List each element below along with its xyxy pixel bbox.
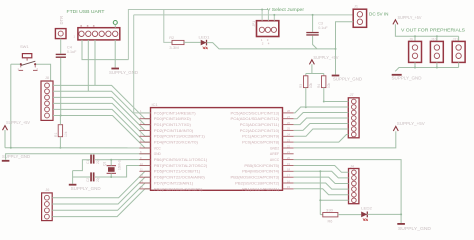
svg-text:PD4(PCINT20/XCK/T0): PD4(PCINT20/XCK/T0): [154, 141, 198, 145]
svg-text:JP1: JP1: [252, 21, 256, 27]
ground SUPPLY_GND at FTDI: [109, 68, 138, 75]
junction crystal bottom: [110, 176, 112, 178]
wire R1 bottom to VCC rail: [59, 137, 61, 148]
pin 13 stub (left): [139, 182, 150, 184]
pin 20 stub (right): [283, 159, 294, 161]
svg-text:0.1uF: 0.1uF: [318, 26, 328, 30]
wire J8 pin2 to IC PD1: [53, 91, 150, 124]
pin numbers under JP1: [261, 38, 270, 46]
svg-text:R2: R2: [169, 36, 174, 40]
svg-text:FTDI USB UART: FTDI USB UART: [67, 9, 105, 14]
svg-text:V OUT FOR PREPHERIALS: V OUT FOR PREPHERIALS: [401, 28, 465, 33]
wire J11 bottom to gnd rail: [458, 62, 460, 67]
wire IC XTAL2 to C2: [95, 166, 150, 178]
junction R4/SCL: [323, 101, 325, 103]
junction crystal top: [110, 159, 112, 161]
svg-text:SW1: SW1: [20, 44, 29, 49]
ground SUPPLY_GND peripherals: [392, 74, 422, 81]
pin 16 stub (right): [283, 182, 294, 184]
wire J4 pin6 to R6 branch: [320, 199, 348, 201]
pin 19 stub (right): [283, 165, 294, 167]
junction R3/SDA: [305, 106, 307, 108]
junction rail/J9: [414, 35, 416, 37]
svg-text:x: x: [80, 24, 82, 28]
connector J9: [409, 41, 422, 62]
wire IC PB4 to J4 pin2: [294, 171, 349, 178]
wire R3 bottom to SDA net: [305, 88, 307, 108]
wire C2 to ground: [73, 176, 91, 178]
svg-text:SUPPLY_+5V: SUPPLY_+5V: [313, 55, 338, 60]
svg-text:PC1(ADC1/PCINT9): PC1(ADC1/PCINT9): [242, 135, 279, 139]
wire SW1 rail down left side: [10, 64, 12, 148]
pin 11 stub (left): [139, 170, 150, 172]
supply SUPPLY_+5V left: [3, 120, 31, 130]
svg-text:PC5(ADC5/SCL/PCINT13): PC5(ADC5/SCL/PCINT13): [231, 111, 280, 115]
pin 9 stub (left): [139, 159, 150, 161]
svg-text:R3: R3: [299, 84, 303, 88]
junction R1/VCC rail: [59, 147, 61, 149]
svg-text:J4: J4: [350, 164, 354, 168]
svg-text:J6: J6: [45, 188, 49, 192]
svg-text:VCC: VCC: [154, 146, 161, 150]
wire peripheral gnd rail: [395, 68, 458, 72]
junction J4 pin6 branch: [319, 199, 321, 201]
wire +5V arrow to VCC rail: [4, 130, 6, 148]
svg-text:10k: 10k: [327, 82, 331, 88]
connector J6 4-pin header: [42, 193, 53, 221]
wire J9 bottom to gnd rail: [414, 62, 416, 67]
pin 28 stub (right): [283, 112, 294, 114]
svg-text:SUPPLY_+5V: SUPPLY_+5V: [397, 121, 425, 126]
wire IC AVCC to bottom right ground: [294, 160, 402, 223]
svg-text:R6: R6: [328, 219, 333, 223]
svg-text:x: x: [87, 24, 89, 28]
resistor R4: [322, 76, 326, 88]
svg-text:PB7(PCINT7/XTAL2/TOSC2): PB7(PCINT7/XTAL2/TOSC2): [154, 164, 207, 168]
wire C3 bottom to gnd rail: [313, 36, 317, 49]
svg-text:PB6(PCINT6/XTAL1/TOSC1): PB6(PCINT6/XTAL1/TOSC1): [154, 158, 207, 162]
wire J8 pin6 to IC VCC: [53, 116, 150, 148]
wire top rail tee down to R2: [164, 10, 172, 43]
junction gnd rail/J9: [414, 67, 416, 69]
wire J8 pin1 to IC PD0: [53, 85, 150, 118]
svg-text:J7: J7: [350, 93, 354, 97]
svg-text:PC4(ADC4/SDA/PCINT12): PC4(ADC4/SDA/PCINT12): [231, 117, 280, 121]
svg-text:SUPPLY_+5V: SUPPLY_+5V: [398, 15, 422, 20]
wire IC PB1 to J4 pin5: [294, 189, 349, 195]
connector J4 6-pin header: [349, 169, 359, 204]
pin 6 stub (left): [139, 141, 150, 143]
wire J10 bottom to gnd rail: [436, 62, 438, 67]
svg-text:C1: C1: [86, 160, 90, 164]
wire JP1 pin1 riser: [261, 10, 263, 21]
connector J1 DC 5V IN: [353, 9, 366, 27]
junction JP1 pin3 / DC5V rail: [273, 14, 275, 16]
wire IC PC4 to J7 pin3: [294, 113, 349, 119]
wire J8 pin5 to IC PD4: [53, 109, 150, 142]
wire FTDI pin2 RXD down to J8 bus: [87, 40, 89, 91]
wire DTR pad to C4: [60, 39, 62, 54]
wire DC5V rail tee to C3: [312, 15, 314, 32]
wire R2 to LED1: [184, 41, 201, 43]
pin 21 stub (right): [283, 153, 294, 155]
pin 5 stub (left): [139, 135, 150, 137]
svg-text:PD7(PCINT23/AIN1): PD7(PCINT23/AIN1): [154, 181, 193, 185]
junction rail/J10: [436, 35, 438, 37]
svg-text:22p: 22p: [96, 158, 100, 164]
supply SUPPLY_+5V top right: [393, 15, 422, 24]
svg-text:0.1uF: 0.1uF: [67, 49, 77, 54]
wire C1 to ground corner: [73, 160, 91, 171]
wire IC PC0 to J7 pin7: [294, 135, 349, 143]
wire rail to J11: [458, 36, 460, 41]
capacitor C1: [90, 155, 94, 164]
wire +5V arrow to pullups: [311, 64, 313, 73]
svg-text:J8: J8: [45, 76, 49, 80]
svg-text:PB1(OC1A/PCINT1): PB1(OC1A/PCINT1): [242, 187, 279, 191]
capacitor C2: [90, 172, 94, 181]
svg-text:PC2(ADC2/PCINT10): PC2(ADC2/PCINT10): [240, 129, 279, 133]
svg-text:LED2: LED2: [361, 206, 372, 210]
svg-text:DTR: DTR: [59, 16, 64, 25]
pin 3 stub (left): [139, 124, 150, 126]
svg-text:PB2(SS/OC1B/PCINT2): PB2(SS/OC1B/PCINT2): [235, 181, 279, 185]
svg-text:PB3(MOSI/OC2A/PCINT3): PB3(MOSI/OC2A/PCINT3): [231, 176, 280, 180]
supply SUPPLY_+5V right: [393, 121, 425, 131]
wire VCC rail to IC pin 7: [5, 147, 150, 149]
pin 23 stub (right): [283, 141, 294, 143]
wire J6 pin4 to IC PB0: [52, 189, 150, 217]
svg-text:10k: 10k: [309, 82, 313, 88]
svg-text:SUPPLY_GND: SUPPLY_GND: [392, 75, 422, 80]
resistor R1: [58, 125, 62, 137]
svg-text:PD0(PCINT16/RXD): PD0(PCINT16/RXD): [154, 117, 191, 121]
svg-text:SUPPLY_GND: SUPPLY_GND: [2, 154, 30, 159]
wire JP1 pin2 riser: [267, 10, 269, 21]
svg-text:SUPPLY_GND: SUPPLY_GND: [398, 226, 431, 231]
connector J10: [430, 41, 443, 62]
svg-text:C2: C2: [86, 178, 90, 182]
pin 14 stub (left): [139, 188, 150, 190]
wire IC PB2 to J4 pin4: [294, 183, 349, 189]
ground SUPPLY_GND at crystal: [69, 184, 101, 191]
svg-text:Q1: Q1: [103, 162, 107, 166]
wire crystal top: [110, 160, 112, 166]
junction gnd rail/J10: [436, 67, 438, 69]
pin 10 stub (left): [139, 165, 150, 167]
svg-text:V Select Jumper: V Select Jumper: [267, 7, 304, 12]
wire IC PC5 to J7 pin2: [294, 107, 349, 113]
svg-text:PD3(PCINT19/OC2B/INT1): PD3(PCINT19/OC2B/INT1): [154, 135, 205, 139]
junction gnd rail / J1 drop: [335, 48, 337, 50]
svg-text:330: 330: [326, 208, 333, 212]
pin 27 stub (right): [283, 118, 294, 120]
wire FTDI pin1 to GND-CTS rail: [82, 40, 128, 60]
wire J6 pin3 to IC PD7: [52, 183, 150, 210]
node VCC open junction above pin 6: [113, 21, 117, 25]
wire JP1 pin3 riser: [273, 15, 275, 21]
resistor R6: [320, 213, 338, 217]
resistor R2: [172, 40, 184, 44]
svg-text:J1: J1: [354, 5, 358, 9]
wire PB4 branch down to R6: [319, 171, 321, 214]
junction SW1 rail / VCC rail: [10, 147, 12, 149]
svg-text:DC 5V IN: DC 5V IN: [369, 12, 389, 17]
ground SUPPLY_GND lower left: [2, 154, 30, 162]
pin 2 stub (left): [139, 118, 150, 120]
svg-text:PC3(ADC3/PCINT11): PC3(ADC3/PCINT11): [240, 123, 279, 127]
svg-text:IC1: IC1: [152, 102, 159, 107]
svg-text:PD1(PCINT17/TXD): PD1(PCINT17/TXD): [154, 123, 191, 127]
wire R6 to LED2: [338, 214, 361, 216]
wire IC XTAL1 to C1: [95, 159, 150, 161]
pin 17 stub (right): [283, 176, 294, 178]
wire LED1 to mid rail: [207, 43, 336, 49]
wire VCC circle to FTDI pin 6: [114, 25, 116, 28]
capacitor C3: [306, 32, 318, 36]
resistor R3: [304, 76, 308, 88]
svg-text:PB0(PCINT0/CLKO/ICP1): PB0(PCINT0/CLKO/ICP1): [154, 187, 203, 191]
pin 4 stub (left): [139, 129, 150, 131]
svg-text:PD2(PCINT18/INT0): PD2(PCINT18/INT0): [154, 129, 193, 133]
svg-text:GND: GND: [154, 152, 161, 156]
wire FTDI pin6 to ground: [114, 40, 116, 68]
pin 26 stub (right): [283, 124, 294, 126]
wire IC PC3 to J7 pin4: [294, 118, 349, 125]
junction C4/R1/J8 net: [60, 115, 62, 117]
wire left rail to SW1: [11, 63, 20, 65]
svg-text:R4: R4: [317, 84, 321, 88]
LED LED1: [201, 40, 208, 49]
junction PB4 branch: [319, 170, 321, 172]
wire rail to J9: [414, 36, 416, 41]
pin marks above FTDI header: [74, 24, 95, 39]
svg-text:SUPPLY_GND: SUPPLY_GND: [333, 76, 362, 81]
wire LED2 to ground drop: [367, 213, 401, 215]
wire top rail to DC5V (inner): [134, 14, 354, 16]
svg-text:16MHz: 16MHz: [118, 159, 122, 170]
wire crystal bottom: [110, 173, 112, 177]
wire J8 pin3 to IC PD2: [53, 97, 150, 130]
wire rail to J10: [436, 36, 438, 41]
junction C3 top: [312, 14, 314, 16]
svg-text:3.3M: 3.3M: [169, 46, 179, 50]
wire IC PB3 to J4 pin3: [294, 177, 349, 183]
wire R4 top: [323, 74, 325, 76]
svg-text:x: x: [93, 24, 95, 28]
junction LED2/gnd drop: [400, 213, 402, 215]
op-amp U1 / microcontroller IC1 body: [151, 108, 283, 191]
wire GND rail to IC pin 8: [6, 154, 151, 160]
wire R4 bottom to SCL net: [323, 88, 325, 102]
wire outer riser to top rail: [128, 10, 268, 60]
wire R3 top: [305, 74, 307, 76]
ground SUPPLY_GND below J1: [332, 75, 362, 82]
svg-text:PB5(SCK/PCINT5): PB5(SCK/PCINT5): [244, 164, 279, 168]
pin 8 stub (left): [139, 153, 150, 155]
connector X1 FTDI 6-pin header: [78, 28, 120, 40]
wire J6 pin2 to IC PD6: [52, 177, 150, 204]
pin 7 stub (left): [139, 147, 150, 149]
svg-text:SUPPLY_+5V: SUPPLY_+5V: [6, 120, 30, 125]
wire IC PC2 to J7 pin5: [294, 124, 349, 131]
svg-text:AVCC: AVCC: [270, 158, 280, 162]
pin 15 stub (right): [283, 188, 294, 190]
svg-text:PC6(PCINT14/RESET): PC6(PCINT14/RESET): [154, 111, 196, 115]
wire R1 top: [59, 116, 61, 125]
svg-text:PD5(PCINT21/OC0B/T1): PD5(PCINT21/OC0B/T1): [154, 170, 200, 174]
wire J6 pin1 to IC PD5: [52, 171, 150, 197]
connector J11: [452, 41, 465, 62]
svg-text:GND2: GND2: [270, 146, 279, 150]
svg-text:PC0(ADC0/PCINT8): PC0(ADC0/PCINT8): [242, 141, 279, 145]
wire IC GND2 to +5V arrow: [294, 131, 396, 148]
wire J8 pin4 to IC PD3: [53, 103, 150, 136]
crystal Q1: [107, 166, 116, 174]
switch SW1 push button: [17, 54, 38, 71]
svg-text:PD6(PCINT22/OC0A/AIN0): PD6(PCINT22/OC0A/AIN0): [154, 176, 205, 180]
pin 22 stub (right): [283, 147, 294, 149]
wire SW1 to J8 pin1: [36, 64, 51, 81]
wire J1 pin2 to ground: [336, 22, 354, 75]
pin 25 stub (right): [283, 129, 294, 131]
svg-text:R1: R1: [54, 133, 58, 137]
wire RESET top rail to IC pin 1: [134, 15, 151, 113]
pin 24 stub (right): [283, 135, 294, 137]
LED LED2: [361, 212, 367, 221]
svg-text:AREF: AREF: [270, 152, 280, 156]
capacitor C4: [56, 54, 66, 58]
svg-text:C3: C3: [318, 21, 323, 25]
svg-text:LED1: LED1: [199, 35, 210, 39]
pin 18 stub (right): [283, 170, 294, 172]
connector X2 DTR pad: [55, 29, 66, 39]
connector J7 7-pin header: [348, 98, 359, 138]
svg-text:10k: 10k: [64, 131, 68, 137]
wire C4 to RESET net: [60, 58, 62, 116]
wire FTDI pin3 TXD down to J8 bus: [94, 40, 96, 86]
wire IC PB5 to J4 pin1: [294, 166, 349, 173]
pin 12 stub (left): [139, 176, 150, 178]
ground SUPPLY_GND bottom right: [397, 223, 431, 231]
wire +5V arrow to peripheral rail: [395, 24, 458, 36]
wire IC PC1 to J7 pin6: [294, 129, 349, 136]
supply SUPPLY_+5V mid: [309, 55, 338, 64]
wire crystal ground drop: [72, 171, 74, 184]
wire SCL to J7 pin1: [324, 101, 349, 103]
junction JP1 pin1 / top rail: [261, 9, 263, 11]
connector J8 6-pin header: [41, 81, 53, 120]
svg-text:SUPPLY_GND: SUPPLY_GND: [71, 186, 101, 191]
svg-text:22p: 22p: [96, 176, 100, 182]
jumper JP1 3-pin: [257, 21, 279, 37]
pin 1 stub (left): [139, 112, 150, 114]
svg-text:PB4(MISO/PCINT4): PB4(MISO/PCINT4): [242, 170, 279, 174]
